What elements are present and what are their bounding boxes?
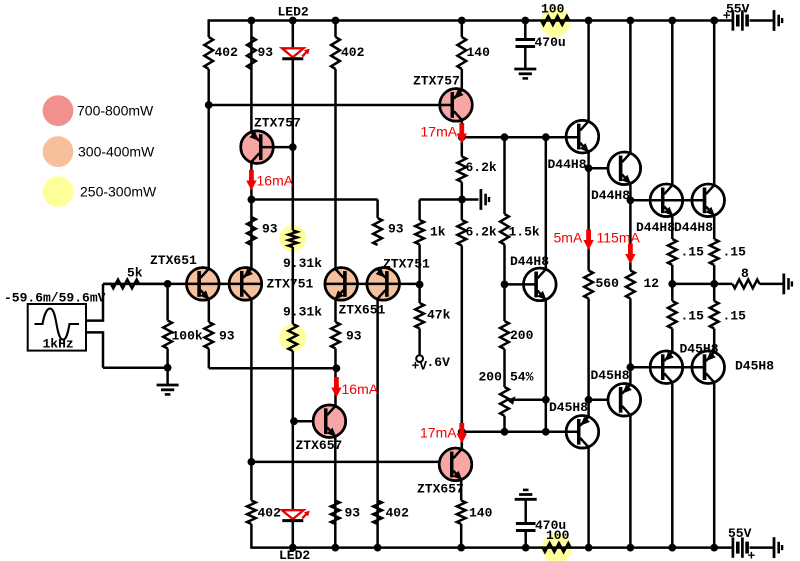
label D45H8 (Q14) [549,400,588,415]
resistor 93 (bottom) [331,501,340,525]
node top rail / 93 [248,17,256,25]
node bottom rail / Q14 [585,544,593,552]
resistor 93 (Q1 emitter) [204,322,213,349]
wire 12 to D45H8-2 collector [629,299,632,384]
transistor Q1 ZTX651 (input NPN) [187,268,220,301]
resistor 100 (bottom rail) [543,543,571,552]
wire Q7 emitter to bottom 93 [334,437,337,548]
node top rail / Q9 [585,17,593,25]
resistor 100 (top rail) [541,16,569,25]
wire Q5 base stub [262,146,293,149]
wire Q4 base node to 47k [418,285,421,304]
wire .15 to D45H8-3 emitter [671,329,674,352]
wire 93 to node y=368.3 [334,349,337,369]
node Q5 collector / mirror row [248,196,256,204]
ground (input) [157,385,179,394]
current label 5mA [554,230,583,246]
wire D44H8-4 collector [713,21,716,185]
LED LED2 (top) [282,48,310,58]
wire Q6 collector chain x=461.8 [461,121,464,157]
transistor Q5 ZTX757 (upper-left PNP) symbol [241,131,274,164]
label D44H8 (Q11) [636,220,675,235]
svg-text:200: 200 [479,370,503,385]
svg-text:12: 12 [644,276,660,291]
resistor 1k [415,220,424,245]
resistor 560 [584,271,593,299]
node pot wiper / Q13 emitter [542,396,550,404]
wire .15 to output node C [671,265,674,301]
wire 402 top-left column (x=208.7) [207,69,210,105]
svg-text:140: 140 [469,506,493,521]
label 402 [258,506,282,521]
node pot bottom / bottom VAS row [501,428,509,436]
label 402 [215,45,239,60]
label 8 [741,266,749,281]
label 100 [541,2,565,17]
wire input row y=283.9 left [103,283,169,286]
svg-text:93: 93 [258,45,274,60]
transistor Q8 ZTX657 (bottom VAS NPN) symbol [439,448,472,481]
wire D45H8-3 collector to rail [671,383,674,547]
legend swatch 300-400mW [43,136,74,167]
svg-text:ZTX651: ZTX651 [339,303,386,318]
svg-text:402: 402 [386,506,410,521]
wire top rail to ground after battery [750,19,775,22]
wire node to Q7 collector [334,368,337,405]
ground (top cap) [514,69,536,78]
node VAS row / 1.5k [501,133,509,141]
node top rail / battery [710,17,718,25]
wire D44H8-3 collector [671,21,674,185]
transistor Q17 D45H8 (output PNP) [692,351,725,384]
wire ground node down [166,368,169,385]
label D45H8 (Q15) [591,368,630,383]
label 6.2k [466,225,497,240]
label + (top battery) [723,9,731,24]
transistor Q11 D44H8 (output NPN) symbol [650,184,683,217]
wire bottom rail to ground after battery [750,546,775,549]
wire D45H8-4 collector to rail [713,383,716,547]
label .15 [681,245,705,260]
svg-text:200: 200 [510,328,534,343]
resistor 100k (input) [163,321,172,349]
wire D44H8-2 collector [629,21,632,153]
label 200 [510,328,534,343]
wire top cap to ground [524,47,527,70]
wire D44H8-4 emitter to .15 [713,216,716,239]
capacitor 470u (bottom) [516,524,536,531]
svg-text:115mA: 115mA [597,230,641,246]
node Q4 base / 1k / 47k [416,281,424,289]
label 100k [172,329,203,344]
label 402 [341,45,365,60]
wire output NPN base row y=200.3 [630,199,705,202]
wire 1.5k to Q13 base node [503,245,506,285]
wire Q13 base stub [505,283,536,286]
resistor 8 (load) [733,280,760,289]
svg-text:402: 402 [215,45,239,60]
svg-text:560: 560 [596,276,620,291]
current label 16mA [342,381,379,397]
label 54% [510,370,534,385]
wire Q1 emitter to 93 [208,299,211,322]
svg-text:D44H8: D44H8 [674,220,713,235]
wire output node row y=283.9 [672,283,732,286]
legend label 700-800mW [77,103,154,119]
svg-text:D45H8: D45H8 [549,400,588,415]
wire D45H8-2 base stub [589,399,609,402]
svg-text:.6V: .6V [427,355,451,370]
label 470u [535,518,566,533]
wire Q7 base stub [294,420,314,423]
node input / 5k / 100k [164,280,172,288]
svg-text:100: 100 [541,2,565,17]
svg-text:ZTX751: ZTX751 [267,277,314,292]
legend swatch 250-300mW [43,176,74,207]
label D44H8 (Q10) [591,188,630,203]
wire 6.2k down to Q8 collector [461,246,464,449]
svg-text:470u: 470u [535,518,566,533]
label ZTX651 (Q3) [339,303,386,318]
label 402 [386,506,410,521]
label +V [412,359,428,374]
transistor Q13 D44H8 (mid NPN) [524,268,557,301]
resistor 47k (feedback) [415,303,424,329]
ground (bottom rail) [774,537,782,558]
svg-text:-59.6m/59.6mV: -59.6m/59.6mV [4,291,106,306]
node emitter row / Q7 collector [333,364,341,372]
wire Q8 emitter to 140 bottom [460,480,463,548]
node bottom rail / 470u [522,544,530,552]
label ZTX751 (Q4) [383,257,430,272]
transistor Q9 D44H8 (driver NPN) [566,120,599,153]
label 1kHz [43,337,74,352]
transistor Q10 D44H8 (driver NPN) symbol [608,152,641,185]
svg-text:ZTX751: ZTX751 [383,257,430,272]
label .15 [723,245,747,260]
power highlight (yellow) on resistor 9.31k upper [279,225,306,252]
node Q8 collector / bottom VAS row [458,428,466,436]
wire source bottom stub [86,331,103,368]
resistor 140 (bottom) [457,501,466,525]
label + (bottom battery) [748,548,756,561]
node top rail / 470u [521,17,529,25]
transistor Q3 ZTX651 (mirrored NPN) symbol [325,268,358,301]
wire top +55V rail [209,19,732,37]
svg-text:D44H8: D44H8 [510,254,549,269]
current arrow 16mA (lower) [331,377,341,398]
label 93 [258,45,274,60]
svg-text:D45H8: D45H8 [591,368,630,383]
node bottom rail / 140 [457,544,465,552]
power highlight (yellow) on resistor 100 top [540,7,570,37]
node Q2 collector / bottom node row [248,458,256,466]
current label 17mA [420,425,457,441]
wire mirror row y=199.5 left segment [251,200,377,219]
transistor Q2 ZTX751 (input PNP) [229,268,262,301]
current label 17mA [421,124,458,140]
svg-text:1k: 1k [430,225,446,240]
wire Q3 emitter to 93 [334,299,337,322]
resistor 402 (bottom left) [247,501,256,525]
wire Q1 collector column [207,105,210,269]
wire top cap drop [524,21,527,40]
resistor 402 (top mid) [331,37,340,69]
svg-text:300-400mW: 300-400mW [78,144,155,160]
transistor Q7 ZTX657 (lower-left NPN) [313,405,346,438]
current label 16mA [257,173,294,189]
wire 6.2k to 6.2k [461,182,464,220]
svg-text:D45H8: D45H8 [680,342,719,357]
ground (output) [784,274,792,295]
wire 93 top column x=251.4 upper [250,21,253,132]
svg-text:700-800mW: 700-800mW [77,103,154,119]
svg-text:+: + [748,548,756,561]
power highlight (yellow) on resistor 100 bottom [542,533,572,561]
wire 115mA node to 12 [629,262,632,271]
wire D44H8-2 base stub [589,167,609,170]
label ZTX757 (Q6) [413,74,460,89]
resistor 200 (upper) [500,321,509,349]
transistor Q2 ZTX751 (input PNP) symbol [229,268,262,301]
transistor Q15 D45H8 (driver PNP) symbol [608,384,641,417]
svg-text:470u: 470u [535,35,566,50]
transistor Q11 D44H8 (output NPN) [650,184,683,217]
label 93 [346,329,362,344]
wire 1k to Q4 base node [418,245,421,285]
resistor .15 (lower C) [668,301,677,329]
current arrow 5mA [583,230,593,251]
node 6.2k / ground [458,196,466,204]
svg-text:6.2k: 6.2k [466,225,497,240]
wire mirror row y=199.5 right segment [420,200,479,221]
wire .15 to D45H8-4 emitter [713,329,716,352]
resistor 6.2k (lower) [457,220,466,246]
battery 55V (bottom) [733,537,747,557]
label 140 [469,506,493,521]
battery 55V (top) [733,10,747,30]
label LED2 [279,548,310,561]
svg-text:93: 93 [345,506,361,521]
node output / .15 C [668,280,676,288]
label 200 [479,370,503,385]
label 5k [127,266,143,281]
svg-text:D44H8: D44H8 [591,188,630,203]
svg-text:93: 93 [346,329,362,344]
wire bottom cap to rail [524,531,527,548]
svg-text:+V: +V [412,359,428,374]
svg-text:ZTX657: ZTX657 [417,482,464,497]
svg-text:5mA: 5mA [554,230,583,246]
label D44H8 (Q13) [510,254,549,269]
resistor .15 (upper C) [668,239,677,265]
svg-text:5k: 5k [127,266,143,281]
wire Q4 emitter down x=377.6 [376,299,379,548]
source sine generator 1kHz [28,304,86,351]
terminal +V .6V [416,355,423,362]
node Q13 base / bias chain [501,281,509,289]
wire 93 to y=368.3 row [208,349,211,369]
label 55V [726,2,750,17]
wire node row y=105 to Q6 base [209,104,454,107]
wire bottom cap from inverted ground [524,499,527,523]
svg-text:D44H8: D44H8 [548,157,587,172]
wire Q5 collector down to node [250,163,253,269]
svg-text:.15: .15 [723,309,747,324]
wire bottom node row y=461.9 to Q8 base [251,461,440,464]
wire VAS row y=137.2 to Q9 base [462,136,579,139]
label 55V [728,526,752,541]
potentiometer 200 54% [500,387,515,416]
wire 5mA node to 560 [587,248,590,271]
svg-text:93: 93 [219,329,235,344]
node top rail / LED2 [289,17,297,25]
svg-text:ZTX651: ZTX651 [150,253,197,268]
svg-text:1kHz: 1kHz [43,337,74,352]
resistor 93 (top) [247,37,256,69]
label 6.2k [466,160,497,175]
transistor Q14 D45H8 (driver PNP) [566,416,599,449]
resistor 402 (bottom mid) [373,501,382,525]
svg-text:.15: .15 [681,309,705,324]
label .15 [723,309,747,324]
wire .15 to output node D [713,265,716,301]
wire D44H8-1 collector [587,21,590,122]
resistor 5k (input) [111,280,139,289]
svg-text:ZTX657: ZTX657 [296,438,343,453]
svg-text:ZTX757: ZTX757 [254,116,301,131]
label D45H8 (Q17) [735,359,774,374]
label 1.5k [509,225,540,240]
node Q10 emitter / output bases [627,196,635,204]
transistor Q14 D45H8 (driver PNP) symbol [566,416,599,449]
label 47k [427,308,451,323]
transistor Q4 ZTX751 (mirrored PNP) [367,268,400,301]
label 560 [596,276,620,291]
svg-text:+: + [723,9,731,24]
wire D45H8-1 emitter to rail [587,448,590,548]
label ZTX757 (Q5) [254,116,301,131]
power highlight (yellow) on resistor 9.31k lower [279,324,306,351]
wire Q13 collector column x=545.8 [545,137,548,268]
current arrow 115mA [625,244,635,265]
wire 9.31k upper to 9.31k lower [292,247,295,324]
transistor Q7 ZTX657 (lower-left NPN) symbol [313,405,346,438]
resistor 9.31k (upper) [288,231,297,248]
transistor Q5 ZTX757 (upper-left PNP) [241,131,274,164]
svg-text:8: 8 [741,266,749,281]
wire 402 top column x=335.5 [334,21,337,269]
current arrow 17mA (upper) [457,123,467,144]
current arrow 16mA (upper) [246,170,256,191]
node top rail / 402 [332,17,340,25]
wire output PNP base row y=367.2 [630,366,705,369]
label 9.31k [283,305,322,320]
wire bottom -55V rail [251,524,731,549]
transistor Q16 D45H8 (output PNP) symbol [650,351,683,384]
transistor Q17 D45H8 (output PNP) symbol [692,351,725,384]
resistor 93 (Q3 emitter) [331,322,340,349]
label 93 [388,222,404,237]
label ZTX657 (Q7) [296,438,343,453]
label .6V [427,355,451,370]
node bottom rail / 402 [374,544,382,552]
resistor 93 (Q5 mirror) [247,217,256,245]
wire base row y=283.9 input pair [103,283,262,286]
label 93 [345,506,361,521]
wire 8 ohm to output ground [760,283,784,286]
svg-text:54%: 54% [510,370,534,385]
resistor .15 (lower D) [710,301,719,329]
wire LED2 top column [292,21,295,50]
wire Q8 collector stub above [461,419,464,449]
svg-text:55V: 55V [728,526,752,541]
label 100 [546,528,570,543]
node bottom rail / LED2 [289,544,297,552]
node Q15 collector / output bases [627,363,635,371]
node top rail / 140 [458,17,466,25]
svg-text:47k: 47k [427,308,451,323]
node bottom rail / Q17 [710,544,718,552]
svg-text:93: 93 [262,222,278,237]
node output / .15 D [710,280,718,288]
node bottom rail / Q16 [668,544,676,552]
label ZTX751 (Q2) [267,277,314,292]
transistor Q12 D44H8 (output NPN) symbol [692,184,725,217]
transistor Q9 D44H8 (driver NPN) symbol [566,120,599,153]
legend swatch 700-800mW [43,95,74,126]
node top rail / Q12 [710,17,718,25]
svg-text:100k: 100k [172,329,203,344]
node Q6 collector / VAS row [458,133,466,141]
svg-text:140: 140 [467,45,491,60]
wire x=251.4 to bottom 402 [250,462,253,501]
transistor Q3 ZTX651 (mirrored NPN) [325,268,358,301]
label 93 [219,329,235,344]
label 9.31k [283,256,322,271]
wire source return row y=367.7 [103,366,168,369]
node source return / 100k / ground [164,364,172,372]
transistor Q6 ZTX757 (top VAS PNP) symbol [440,89,473,122]
resistor 6.2k (upper) [457,157,466,183]
node Q5 base / LED2 column [289,143,297,151]
resistor 12 [626,271,635,299]
transistor Q15 D45H8 (driver PNP) [608,384,641,417]
label 1k [430,225,446,240]
svg-text:D45H8: D45H8 [735,359,774,374]
LED LED2 (bottom) [282,510,310,520]
wire D44H8-3 emitter to .15 [671,216,674,239]
ground (mirror row) [481,189,489,210]
label ZTX651 (Q1) [150,253,197,268]
label LED2 [278,5,309,20]
label ZTX657 (Q8) [417,482,464,497]
wire source top stub [86,284,103,322]
wire Q13 base node to 200 [503,284,506,321]
resistor 1.5k [500,214,509,245]
wire input node to 100k [166,284,169,321]
svg-text:.15: .15 [723,245,747,260]
resistor 93 (mirror right) [373,218,382,245]
ground (top rail) [774,10,782,31]
svg-text:9.31k: 9.31k [283,256,322,271]
node Q9 emitter / Q10 base [585,164,593,172]
wire 560 to D45H8-1 collector [587,299,590,416]
node Q14 collector / Q15 base [585,396,593,404]
node bottom rail / Q15 [627,544,635,552]
node VAS row / Q13 collector [542,133,550,141]
svg-text:402: 402 [341,45,365,60]
